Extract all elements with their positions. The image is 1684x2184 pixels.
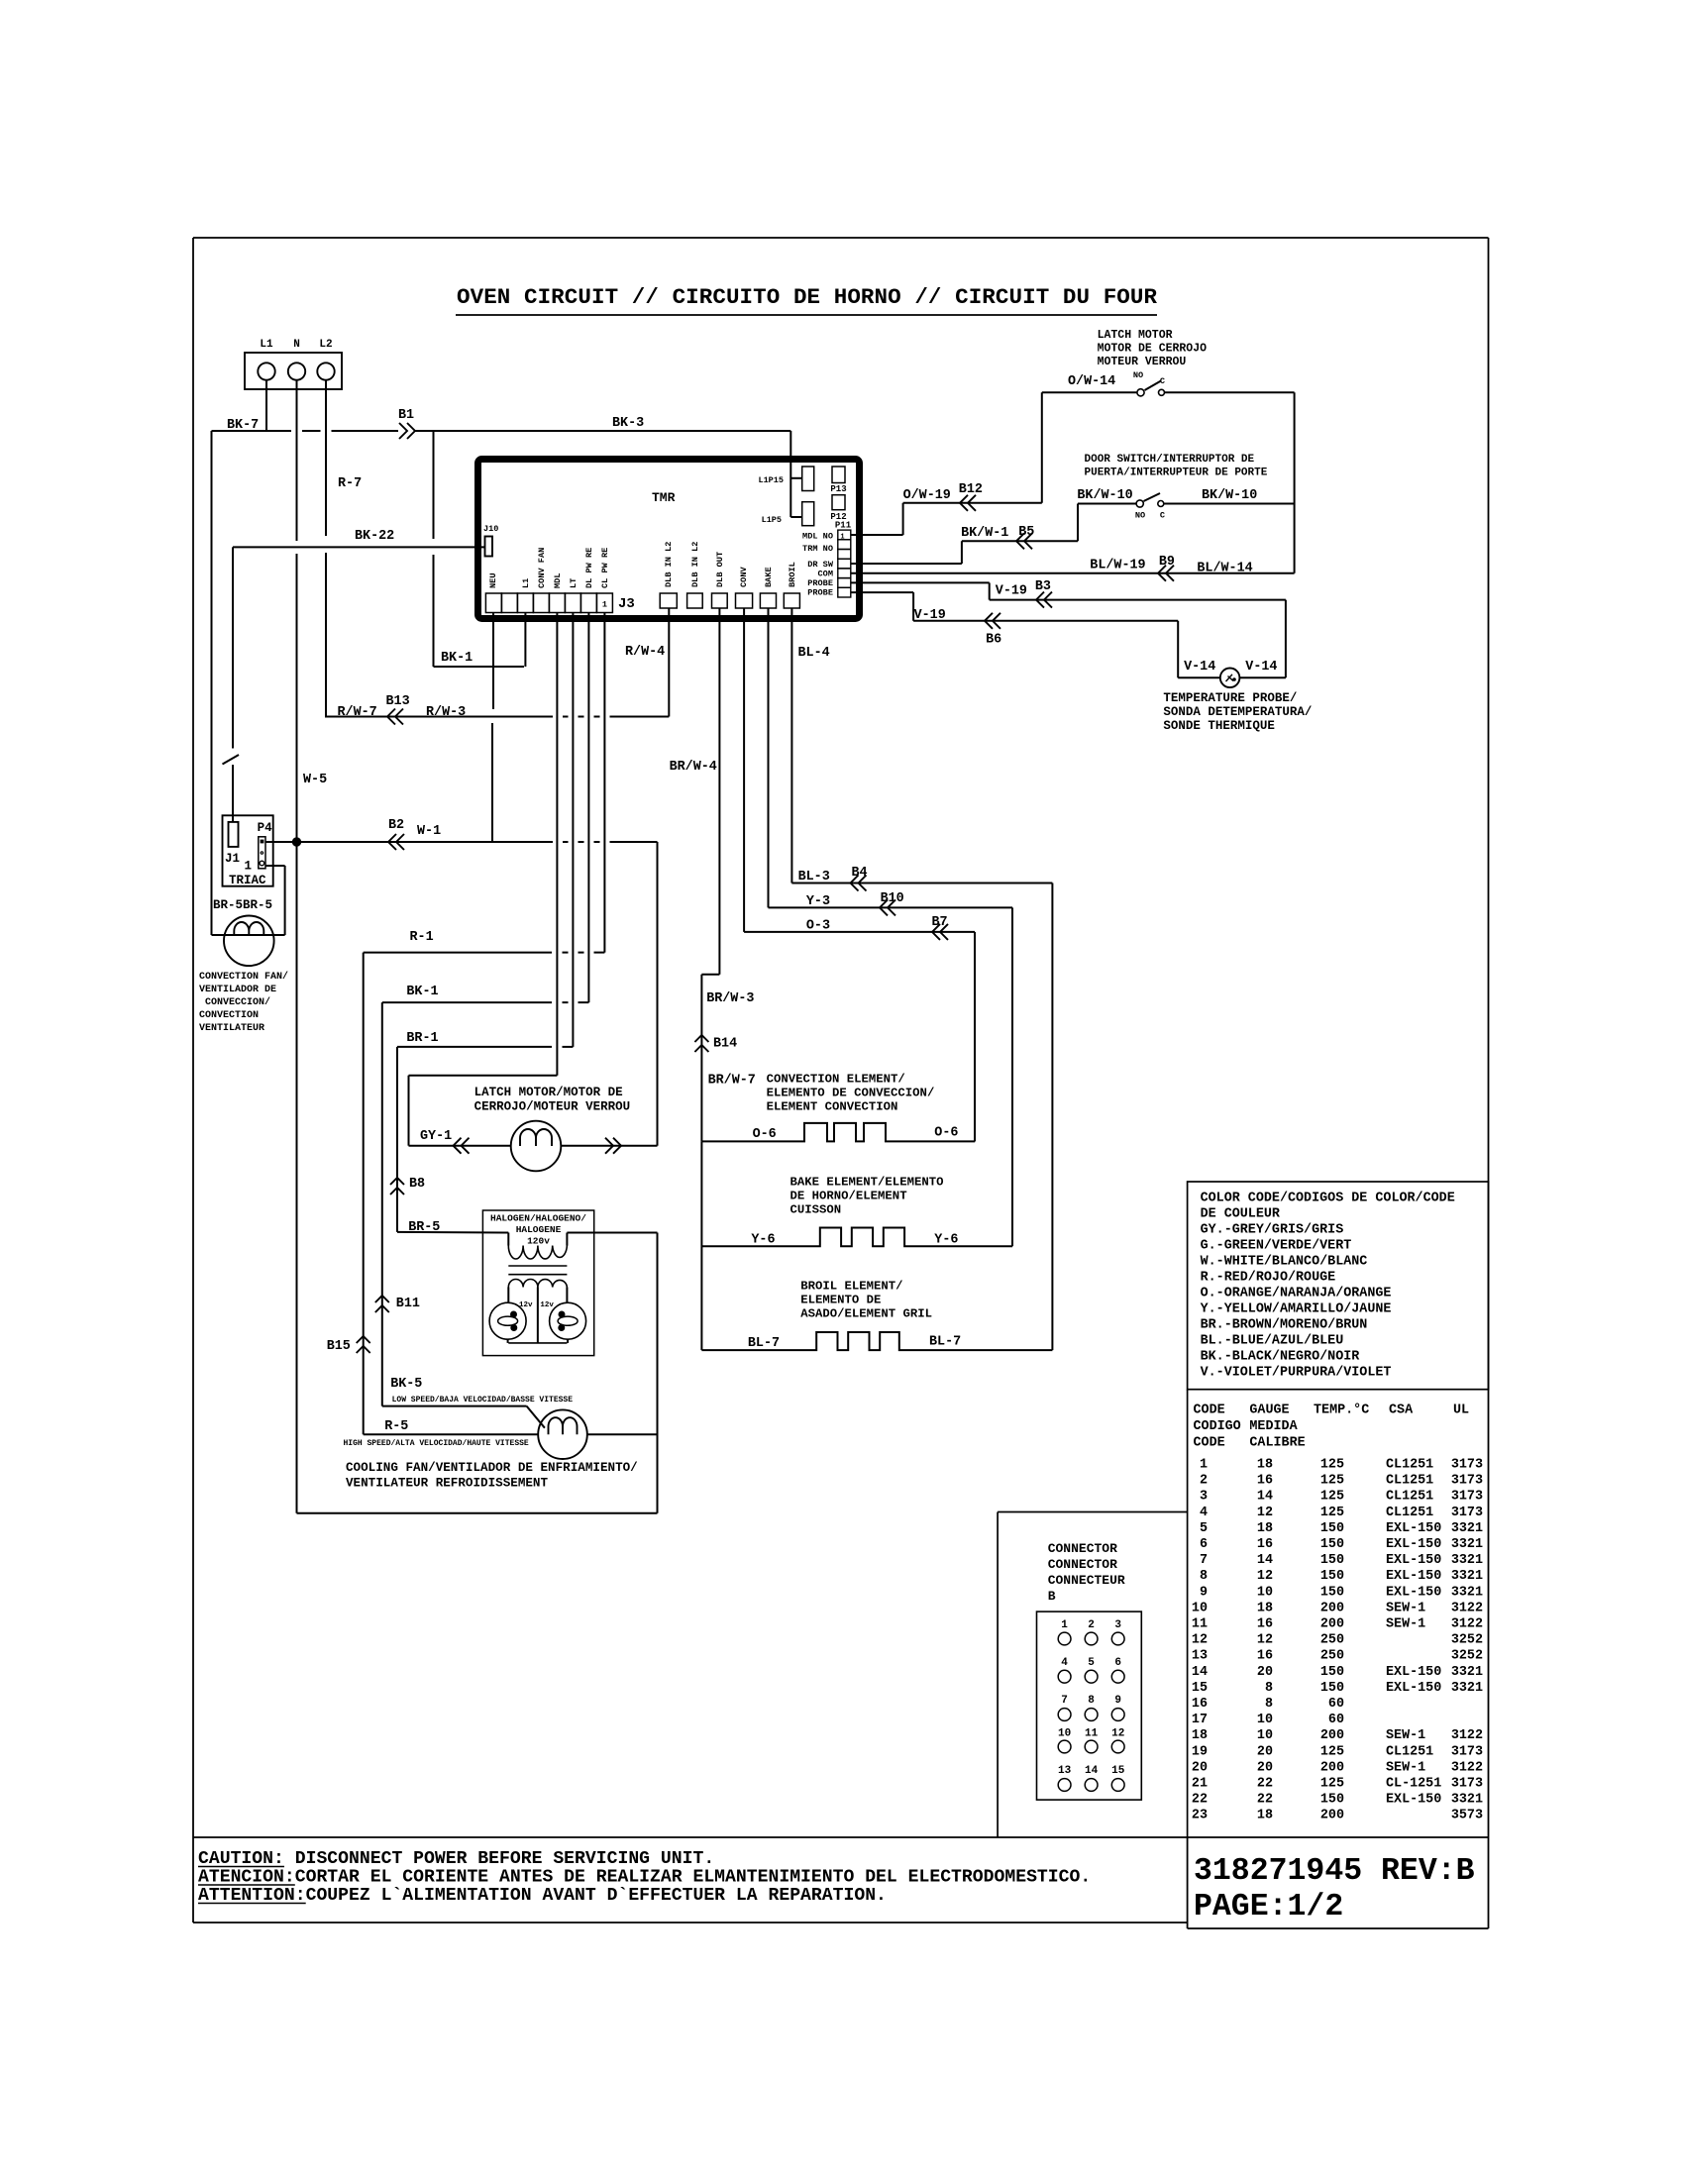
svg-text:TRIAC: TRIAC <box>229 874 266 887</box>
svg-text:P13: P13 <box>830 484 846 494</box>
svg-text:BR/W-3: BR/W-3 <box>706 991 754 1006</box>
svg-text:BR-5: BR-5 <box>408 1220 440 1235</box>
svg-text:3173: 3173 <box>1451 1490 1483 1505</box>
svg-text:CL1251: CL1251 <box>1386 1744 1433 1759</box>
svg-text:14: 14 <box>1257 1553 1273 1568</box>
svg-text:150: 150 <box>1320 1569 1344 1584</box>
svg-text:TRM NO: TRM NO <box>802 544 833 554</box>
svg-text:OVEN CIRCUIT // CIRCUITO DE HO: OVEN CIRCUIT // CIRCUITO DE HORNO // CIR… <box>457 284 1157 310</box>
svg-text:COLOR CODE/CODIGOS DE COLOR/CO: COLOR CODE/CODIGOS DE COLOR/CODE <box>1201 1192 1455 1206</box>
connector L1P5 <box>762 502 814 526</box>
svg-text:Y-6: Y-6 <box>934 1233 958 1248</box>
svg-text:NO: NO <box>1135 511 1145 521</box>
door switch labels <box>1077 454 1267 503</box>
svg-text:BK/W-10: BK/W-10 <box>1202 488 1257 503</box>
svg-text:CONV FAN: CONV FAN <box>537 548 547 588</box>
svg-text:L1P5: L1P5 <box>762 515 782 525</box>
svg-text:150: 150 <box>1320 1537 1344 1552</box>
svg-text:6: 6 <box>1114 1657 1121 1669</box>
svg-text:9: 9 <box>1200 1585 1208 1600</box>
latch motor labels <box>474 1086 631 1114</box>
svg-text:BROIL: BROIL <box>788 562 797 587</box>
svg-text:8: 8 <box>1265 1681 1273 1696</box>
wire fan right <box>587 1433 658 1435</box>
svg-text:15: 15 <box>1192 1681 1208 1696</box>
svg-text:13: 13 <box>1058 1765 1072 1777</box>
svg-text:BAKE: BAKE <box>764 567 774 587</box>
lamp 12v right <box>540 1301 585 1343</box>
svg-text:O/W-14: O/W-14 <box>1068 374 1115 389</box>
svg-text:HALOGENE: HALOGENE <box>516 1224 562 1235</box>
svg-text:3252: 3252 <box>1451 1633 1483 1648</box>
wire J3 pin3 stub <box>524 613 526 668</box>
latch motor labels <box>1068 329 1207 389</box>
svg-text:W.-WHITE/BLANCO/BLANC: W.-WHITE/BLANCO/BLANC <box>1201 1255 1368 1270</box>
svg-text:150: 150 <box>1320 1681 1344 1696</box>
svg-text:V-19: V-19 <box>914 608 946 623</box>
wire fan circuit bottom <box>297 1512 658 1514</box>
connector P13 <box>830 467 846 494</box>
svg-text:3173: 3173 <box>1451 1474 1483 1489</box>
svg-text:MEDIDA: MEDIDA <box>1249 1419 1298 1434</box>
svg-text:250: 250 <box>1320 1633 1344 1648</box>
svg-text:14: 14 <box>1257 1490 1273 1505</box>
svg-text:SEW-1: SEW-1 <box>1386 1760 1425 1775</box>
node B1 arrow <box>398 408 415 439</box>
svg-text:200: 200 <box>1320 1760 1344 1775</box>
svg-text:B8: B8 <box>409 1177 425 1192</box>
connector J10 <box>483 524 498 557</box>
svg-text:200: 200 <box>1320 1809 1344 1823</box>
svg-text:150: 150 <box>1320 1521 1344 1536</box>
cooling fan speed labels <box>344 1377 574 1448</box>
svg-text:8: 8 <box>1265 1697 1273 1712</box>
svg-text:CUISSON: CUISSON <box>790 1203 842 1217</box>
svg-text:B2: B2 <box>388 818 404 833</box>
wire BR-1/BR-5 left vertical <box>396 1047 398 1232</box>
node arrow right <box>605 1138 621 1154</box>
svg-text:125: 125 <box>1320 1506 1344 1520</box>
svg-text:6: 6 <box>1200 1537 1208 1552</box>
svg-text:BR/W-4: BR/W-4 <box>670 760 717 775</box>
svg-text:TEMPERATURE PROBE/: TEMPERATURE PROBE/ <box>1163 691 1297 705</box>
svg-text:7: 7 <box>1061 1695 1068 1707</box>
svg-text:BK/W-10: BK/W-10 <box>1077 488 1132 503</box>
svg-text:UL: UL <box>1453 1404 1469 1418</box>
svg-text:DOOR SWITCH/INTERRUPTOR DE: DOOR SWITCH/INTERRUPTOR DE <box>1085 454 1255 466</box>
convection element labels <box>767 1073 935 1114</box>
svg-text:3321: 3321 <box>1451 1793 1483 1808</box>
convection fan motor <box>213 898 274 966</box>
svg-text:CL PW RE: CL PW RE <box>600 548 610 588</box>
node B7 arrow <box>932 924 948 940</box>
svg-text:BK-22: BK-22 <box>355 529 394 544</box>
svg-text:LT: LT <box>569 578 579 588</box>
wire R/W-4 <box>625 608 669 717</box>
svg-text:P4: P4 <box>258 821 273 835</box>
node B2 arrow <box>388 834 404 850</box>
svg-text:P11: P11 <box>835 521 852 531</box>
svg-text:1: 1 <box>1061 1619 1068 1631</box>
svg-text:12v: 12v <box>519 1301 533 1309</box>
svg-text:COOLING FAN/VENTILADOR DE ENFR: COOLING FAN/VENTILADOR DE ENFRIAMIENTO/ <box>346 1461 638 1475</box>
node B10 arrow <box>880 899 895 915</box>
wire W-1 drop to latch motor <box>657 842 659 1146</box>
svg-text:B15: B15 <box>327 1339 351 1354</box>
svg-text:4: 4 <box>1061 1657 1068 1669</box>
svg-text:BK/W-1: BK/W-1 <box>961 526 1008 541</box>
svg-text:MOTEUR VERROU: MOTEUR VERROU <box>1098 356 1187 368</box>
svg-text:NO: NO <box>1133 370 1143 380</box>
convection element <box>701 1123 975 1142</box>
wire J3 pin8 drop <box>603 613 605 953</box>
svg-text:ELEMENT CONVECTION: ELEMENT CONVECTION <box>767 1100 898 1114</box>
svg-text:R-7: R-7 <box>338 476 362 491</box>
svg-text:1: 1 <box>602 600 607 610</box>
svg-text:5: 5 <box>1200 1521 1208 1536</box>
lamp bottom wire <box>508 1342 567 1344</box>
svg-text:3122: 3122 <box>1451 1601 1483 1615</box>
svg-text:PAGE:1/2: PAGE:1/2 <box>1194 1890 1343 1924</box>
svg-text:14: 14 <box>1192 1665 1208 1680</box>
lamp 12v left <box>489 1301 533 1343</box>
svg-text:VENTILATEUR: VENTILATEUR <box>199 1023 264 1034</box>
svg-text:3173: 3173 <box>1451 1744 1483 1759</box>
svg-text:NEU: NEU <box>488 573 498 588</box>
wire BL-4 / BL-3 B4 <box>791 608 1052 1350</box>
svg-text:8: 8 <box>1200 1569 1208 1584</box>
svg-text:B: B <box>1048 1589 1056 1604</box>
bottom pin labels <box>664 542 797 587</box>
wire W-1 B2 <box>297 818 658 842</box>
svg-text:BK-1: BK-1 <box>406 985 438 999</box>
svg-text:3321: 3321 <box>1451 1537 1483 1552</box>
svg-text:125: 125 <box>1320 1474 1344 1489</box>
svg-text:MOTOR DE CERROJO: MOTOR DE CERROJO <box>1098 343 1208 356</box>
connector B pin block <box>1037 1612 1142 1800</box>
svg-text:V-14: V-14 <box>1245 660 1277 675</box>
svg-text:BR-1: BR-1 <box>406 1031 438 1046</box>
wire BK-7 bus <box>212 418 399 433</box>
svg-text:16: 16 <box>1257 1474 1273 1489</box>
svg-text:20: 20 <box>1192 1760 1208 1775</box>
node B12 arrow <box>960 495 976 511</box>
wire J3 pin5 drop <box>556 613 558 1076</box>
wire L2 / R-7 vertical <box>325 380 327 717</box>
svg-text:11: 11 <box>1192 1617 1208 1632</box>
svg-text:3321: 3321 <box>1451 1585 1483 1600</box>
wire L1 drop <box>265 380 267 431</box>
wire P4 pin3 BR-5 <box>265 866 285 935</box>
title block <box>1194 1854 1475 1924</box>
svg-text:BL-7: BL-7 <box>748 1336 780 1351</box>
temperature probe <box>1184 660 1277 687</box>
svg-text:MDL NO: MDL NO <box>802 532 833 542</box>
wire Y-3 B10 <box>769 608 1013 1246</box>
wire latch switch C to door switch C <box>1294 392 1296 572</box>
svg-text:1: 1 <box>840 533 844 541</box>
svg-text:GY.-GREY/GRIS/GRIS: GY.-GREY/GRIS/GRIS <box>1201 1223 1344 1238</box>
svg-text:3252: 3252 <box>1451 1649 1483 1664</box>
svg-text:18: 18 <box>1192 1728 1208 1743</box>
svg-text:200: 200 <box>1320 1617 1344 1632</box>
svg-text:16: 16 <box>1192 1697 1208 1712</box>
svg-text:125: 125 <box>1320 1490 1344 1505</box>
element left bus <box>700 1141 702 1350</box>
svg-text:18: 18 <box>1257 1601 1273 1615</box>
TRIAC module box <box>223 815 273 885</box>
svg-text:BR.-BROWN/MORENO/BRUN: BR.-BROWN/MORENO/BRUN <box>1201 1318 1368 1333</box>
svg-text:R-5: R-5 <box>384 1419 408 1434</box>
svg-text:BR-5BR-5: BR-5BR-5 <box>213 898 272 912</box>
wire BR/W-4 <box>670 608 720 975</box>
svg-text:150: 150 <box>1320 1793 1344 1808</box>
node B6 arrow <box>985 613 1000 629</box>
svg-text:C: C <box>1160 511 1165 521</box>
latch motor circuit box <box>409 1076 558 1146</box>
svg-text:19: 19 <box>1192 1744 1208 1759</box>
node B15 chevrons <box>327 1336 370 1354</box>
svg-text:3122: 3122 <box>1451 1760 1483 1775</box>
svg-text:L1P15: L1P15 <box>758 475 784 485</box>
svg-text:14: 14 <box>1085 1765 1099 1777</box>
svg-text:W-1: W-1 <box>417 824 441 839</box>
svg-text:CONVECTION ELEMENT/: CONVECTION ELEMENT/ <box>767 1073 905 1087</box>
svg-text:16: 16 <box>1257 1617 1273 1632</box>
svg-text:CONV: CONV <box>739 567 749 587</box>
svg-text:J3: J3 <box>618 596 635 612</box>
border frame <box>193 238 1489 1928</box>
svg-text:5: 5 <box>1088 1657 1095 1669</box>
svg-text:DE COULEUR: DE COULEUR <box>1201 1207 1281 1222</box>
wire R-1 <box>364 930 605 953</box>
svg-text:ASADO/ELEMENT GRIL: ASADO/ELEMENT GRIL <box>800 1307 932 1321</box>
svg-text:3173: 3173 <box>1451 1458 1483 1473</box>
svg-text:BL/W-19: BL/W-19 <box>1090 559 1145 573</box>
wire convection fan bottom <box>212 934 285 936</box>
triac J1 <box>225 822 240 866</box>
wire latch motor right <box>561 1145 658 1147</box>
svg-text:V-14: V-14 <box>1184 660 1215 675</box>
svg-text:B11: B11 <box>396 1297 420 1311</box>
svg-text:L1: L1 <box>521 578 531 588</box>
svg-text:BL-7: BL-7 <box>929 1335 961 1350</box>
connector L1P15 <box>758 467 813 491</box>
wire BR/W-3 B14 BR/W-7 <box>701 975 755 1142</box>
node B3 arrow <box>1036 592 1052 608</box>
temperature probe labels <box>1163 691 1312 733</box>
svg-text:G.-GREEN/VERDE/VERT: G.-GREEN/VERDE/VERT <box>1201 1239 1352 1254</box>
wire BK-3 <box>415 416 790 431</box>
svg-text:CODE: CODE <box>1194 1404 1225 1418</box>
wire halogen right to fan <box>567 1233 657 1513</box>
svg-text:3321: 3321 <box>1451 1665 1483 1680</box>
svg-text:LATCH MOTOR/MOTOR DE: LATCH MOTOR/MOTOR DE <box>474 1086 623 1099</box>
svg-text:TEMP.°C: TEMP.°C <box>1314 1404 1369 1418</box>
svg-text:20: 20 <box>1257 1760 1273 1775</box>
svg-text:EXL-150: EXL-150 <box>1386 1537 1441 1552</box>
svg-text:LATCH MOTOR: LATCH MOTOR <box>1098 329 1173 342</box>
svg-text:R/W-4: R/W-4 <box>625 645 665 660</box>
svg-text:16: 16 <box>1257 1537 1273 1552</box>
svg-text:4: 4 <box>1200 1506 1208 1520</box>
svg-text:60: 60 <box>1328 1713 1344 1727</box>
svg-text:O-6: O-6 <box>934 1126 958 1141</box>
svg-text:ATENCION:CORTAR EL CORIENTE AN: ATENCION:CORTAR EL CORIENTE ANTES DE REA… <box>198 1868 1091 1888</box>
svg-text:C: C <box>1160 376 1165 386</box>
svg-text:EXL-150: EXL-150 <box>1386 1521 1441 1536</box>
svg-text:O.-ORANGE/NARANJA/ORANGE: O.-ORANGE/NARANJA/ORANGE <box>1201 1287 1392 1301</box>
svg-text:150: 150 <box>1320 1585 1344 1600</box>
wire N / W-5 vertical <box>296 380 298 1513</box>
svg-text:DL PW RE: DL PW RE <box>584 548 594 588</box>
wire V-19 B3 (probe) <box>851 579 1286 677</box>
svg-text:125: 125 <box>1320 1777 1344 1792</box>
svg-text:DLB IN L2: DLB IN L2 <box>664 542 674 587</box>
svg-text:VENTILADOR DE: VENTILADOR DE <box>199 985 276 995</box>
svg-text:V.-VIOLET/PURPURA/VIOLET: V.-VIOLET/PURPURA/VIOLET <box>1201 1366 1392 1381</box>
svg-text:CL1251: CL1251 <box>1386 1490 1433 1505</box>
svg-text:SONDA DETEMPERATURA/: SONDA DETEMPERATURA/ <box>1163 705 1312 719</box>
svg-text:B6: B6 <box>986 633 1001 648</box>
svg-text:O-6: O-6 <box>753 1127 777 1142</box>
svg-text:10: 10 <box>1257 1713 1273 1727</box>
latch motor switch <box>1042 370 1295 396</box>
svg-text:3122: 3122 <box>1451 1728 1483 1743</box>
transformer core <box>508 1266 567 1275</box>
svg-text:11: 11 <box>1085 1728 1099 1740</box>
connector J3 <box>485 593 634 613</box>
svg-text:L1: L1 <box>260 339 273 351</box>
svg-text:DE HORNO/ELEMENT: DE HORNO/ELEMENT <box>790 1190 908 1203</box>
svg-text:BROIL ELEMENT/: BROIL ELEMENT/ <box>800 1280 902 1294</box>
svg-text:EXL-150: EXL-150 <box>1386 1569 1441 1584</box>
svg-text:12: 12 <box>1111 1728 1124 1740</box>
svg-text:COM: COM <box>818 570 833 579</box>
svg-text:120v: 120v <box>527 1236 550 1247</box>
svg-text:18: 18 <box>1257 1458 1273 1473</box>
svg-text:BK-7: BK-7 <box>227 418 259 433</box>
svg-text:BAKE ELEMENT/ELEMENTO: BAKE ELEMENT/ELEMENTO <box>790 1176 944 1190</box>
svg-text:J1: J1 <box>225 852 240 866</box>
svg-text:10: 10 <box>1257 1728 1273 1743</box>
junction dot W-5/B2 <box>292 838 300 846</box>
svg-text:3321: 3321 <box>1451 1553 1483 1568</box>
svg-text:W-5: W-5 <box>303 773 327 787</box>
svg-text:CL1251: CL1251 <box>1386 1506 1433 1520</box>
wire high speed <box>364 1433 539 1435</box>
halogen transformer secondary <box>508 1280 567 1343</box>
wire BK-22 drop to TRIAC with interlock switch <box>223 547 240 822</box>
svg-text:200: 200 <box>1320 1728 1344 1743</box>
svg-text:CODIGO: CODIGO <box>1194 1419 1241 1434</box>
wire neutral drop to W-1 <box>492 613 493 843</box>
svg-text:R-1: R-1 <box>410 930 434 945</box>
node B8 chevrons <box>390 1177 425 1195</box>
wire BK-22 <box>233 529 485 547</box>
halogen box <box>482 1210 593 1356</box>
svg-text:CONVECTION: CONVECTION <box>199 1010 259 1021</box>
cooling fan motor <box>538 1409 587 1459</box>
wire BK-3 into L1P15/L1P5 <box>790 431 801 517</box>
svg-text:CONVECCION/: CONVECCION/ <box>205 996 270 1008</box>
svg-text:PUERTA/INTERRUPTEUR DE PORTE: PUERTA/INTERRUPTEUR DE PORTE <box>1085 468 1268 479</box>
svg-text:O/W-19: O/W-19 <box>903 488 951 503</box>
svg-text:DLB IN L2: DLB IN L2 <box>690 542 700 587</box>
svg-text:CONVECTION FAN/: CONVECTION FAN/ <box>199 971 288 983</box>
P11 pin labels <box>802 532 834 598</box>
svg-text:15: 15 <box>1111 1765 1125 1777</box>
svg-text:BL-4: BL-4 <box>798 646 830 661</box>
svg-text:VENTILATEUR REFROIDISSEMENT: VENTILATEUR REFROIDISSEMENT <box>346 1477 548 1491</box>
connector P4 <box>244 821 272 874</box>
svg-text:R/W-3: R/W-3 <box>426 705 466 720</box>
svg-text:12: 12 <box>1257 1506 1273 1520</box>
wire O-3 B7 <box>744 608 975 1141</box>
wire GY-1 <box>409 1129 512 1146</box>
svg-text:PROBE: PROBE <box>807 578 833 588</box>
svg-text:10: 10 <box>1192 1601 1208 1615</box>
svg-text:250: 250 <box>1320 1649 1344 1664</box>
svg-text:22: 22 <box>1192 1793 1208 1808</box>
wire R-1/R-5 left vertical <box>363 953 365 1435</box>
svg-text:B13: B13 <box>386 694 410 709</box>
svg-text:21: 21 <box>1192 1777 1208 1792</box>
svg-text:CL1251: CL1251 <box>1386 1474 1433 1489</box>
svg-text:18: 18 <box>1257 1521 1273 1536</box>
svg-text:ELEMENTO DE: ELEMENTO DE <box>800 1294 881 1307</box>
caution box <box>193 1837 1489 1928</box>
node GY-1 arrow <box>454 1138 470 1154</box>
door switch <box>1135 493 1295 521</box>
svg-text:EXL-150: EXL-150 <box>1386 1585 1441 1600</box>
svg-text:8: 8 <box>1088 1695 1095 1707</box>
halogen labels <box>490 1213 586 1247</box>
connector P11 <box>835 521 852 598</box>
board bottom pins DLB/CONV/BAKE/BROIL <box>660 593 799 608</box>
svg-text:125: 125 <box>1320 1744 1344 1759</box>
svg-text:O-3: O-3 <box>806 919 830 934</box>
connector B labels <box>1048 1541 1125 1604</box>
broil element <box>701 1332 1052 1351</box>
color code box <box>1188 1182 1489 1390</box>
svg-text:SEW-1: SEW-1 <box>1386 1601 1425 1615</box>
svg-text:13: 13 <box>1192 1649 1208 1664</box>
svg-text:2: 2 <box>1088 1619 1095 1631</box>
caution text <box>198 1849 1091 1906</box>
node B4 arrow <box>851 876 867 891</box>
svg-text:60: 60 <box>1328 1697 1344 1712</box>
J3 pin labels <box>488 548 610 588</box>
svg-text:SONDE THERMIQUE: SONDE THERMIQUE <box>1163 719 1275 733</box>
svg-text:BK-3: BK-3 <box>612 416 644 431</box>
svg-text:BK.-BLACK/NEGRO/NOIR: BK.-BLACK/NEGRO/NOIR <box>1201 1350 1361 1365</box>
svg-text:3: 3 <box>1114 1619 1121 1631</box>
latch motor M <box>511 1121 562 1172</box>
svg-text:CERROJO/MOTEUR VERROU: CERROJO/MOTEUR VERROU <box>474 1100 631 1114</box>
title: OVEN CIRCUIT // CIRCUITO DE HORNO // CIRCUIT DU FOUR <box>456 284 1157 315</box>
svg-text:22: 22 <box>1257 1777 1273 1792</box>
svg-text:3: 3 <box>1200 1490 1208 1505</box>
svg-text:3321: 3321 <box>1451 1521 1483 1536</box>
svg-text:10: 10 <box>1058 1728 1071 1740</box>
wire BL/W-19 B9 BL/W-14 (COM) <box>851 555 1295 576</box>
wire R/W-3 B13 R/W-7 <box>325 694 669 720</box>
svg-text:LOW SPEED/BAJA VELOCIDAD/BASSE: LOW SPEED/BAJA VELOCIDAD/BASSE VITESSE <box>392 1396 574 1404</box>
svg-text:22: 22 <box>1257 1793 1273 1808</box>
bake element labels <box>790 1176 944 1217</box>
broil element labels <box>800 1280 932 1321</box>
